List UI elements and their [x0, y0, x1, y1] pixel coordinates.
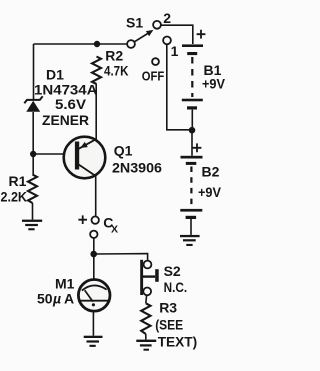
wire B2 bottom lead	[190, 219, 192, 235]
svg-text:M1: M1	[55, 275, 75, 291]
ground below R1	[22, 220, 42, 231]
svg-text:4.7K: 4.7K	[104, 63, 129, 79]
svg-text:2N3906: 2N3906	[112, 159, 162, 175]
wire meter bottom to ground	[92, 311, 94, 336]
node Cx plus terminal circle	[92, 216, 99, 223]
switch S2 actuator cap	[155, 269, 159, 282]
svg-text:TEXT): TEXT)	[158, 333, 198, 349]
ground below B2	[180, 235, 200, 246]
svg-text:D1: D1	[46, 67, 64, 83]
svg-text:2.2K: 2.2K	[1, 188, 28, 204]
svg-text:R1: R1	[9, 173, 27, 189]
svg-text:50: 50	[37, 290, 53, 306]
svg-text:µ: µ	[52, 290, 61, 306]
wire top horizontal rail	[34, 43, 128, 45]
svg-text:B2: B2	[202, 163, 220, 179]
switch S1 arm	[134, 32, 149, 41]
battery B2 dashed cell link	[190, 167, 192, 208]
wire zener to base node	[32, 112, 34, 175]
meter M1 needle	[85, 290, 93, 301]
battery B2	[180, 156, 202, 219]
wire meter node to S2	[94, 254, 148, 261]
svg-text:Q1: Q1	[114, 143, 133, 159]
svg-text:R3: R3	[159, 299, 177, 315]
wire B1 bottom lead	[191, 110, 193, 127]
switch S1 arm arrowhead	[146, 30, 154, 36]
switch S1 OFF terminal circle	[152, 58, 159, 65]
meter M1 chord line	[79, 300, 109, 302]
svg-text:X: X	[111, 223, 118, 235]
svg-text:5.6V: 5.6V	[55, 96, 87, 112]
node base junction dot	[30, 151, 36, 157]
wire terminal1 down and over to battery node	[167, 44, 192, 130]
meter M1 pivot dot	[92, 303, 95, 306]
battery B1 dashed cell link	[191, 57, 193, 97]
transistor Q1 emitter arrowhead	[80, 142, 88, 148]
ground below M1	[84, 336, 103, 347]
node junction top (R2 tap)	[94, 41, 100, 47]
wire B1/B2 junction to B2 top	[191, 133, 193, 156]
resistor R1	[28, 175, 37, 204]
wire Q1 base from left rail	[33, 153, 75, 155]
transistor Q1 emitter lead	[78, 139, 97, 149]
battery B1	[182, 44, 203, 109]
wire S2 bottom to R3	[145, 295, 148, 303]
svg-text:A: A	[64, 290, 74, 306]
meter M1 circle	[78, 280, 110, 312]
svg-text:S2: S2	[164, 263, 181, 279]
svg-text:S1: S1	[126, 15, 143, 31]
wire left rail upper (top to zener)	[33, 44, 35, 99]
transistor Q1 collector lead	[78, 164, 96, 176]
svg-text:(SEE: (SEE	[155, 316, 183, 332]
node B1/B2 junction dot	[189, 127, 196, 134]
svg-text:ZENER: ZENER	[42, 112, 89, 128]
wire t2 to battery B1 top	[161, 25, 193, 44]
transistor Q1 base bar	[75, 142, 79, 170]
switch S2 bar	[140, 260, 143, 295]
resistor R2	[92, 57, 101, 85]
node Cx minus terminal circle	[90, 231, 97, 238]
wire R1 bottom to ground	[32, 203, 34, 220]
switch S2 top contact circle	[144, 261, 152, 269]
switch S1 terminal 1 circle	[163, 37, 171, 45]
switch S2 actuator stem	[143, 275, 155, 277]
switch S2 bottom contact circle	[143, 288, 151, 296]
ground below R3	[136, 340, 156, 351]
plus sign B2	[193, 143, 202, 152]
transistor Q1 circle	[64, 137, 106, 179]
wire Cx bottom terminal to meter node	[93, 238, 95, 279]
wire R3 bottom to ground	[145, 334, 147, 340]
zener diode D1 triangle	[26, 101, 40, 112]
switch S1 terminal 2 circle	[153, 21, 161, 29]
svg-text:R2: R2	[105, 47, 123, 63]
svg-text:+9V: +9V	[198, 184, 222, 200]
node meter junction dot	[90, 251, 97, 258]
plus sign B1	[197, 30, 206, 39]
plus sign Cx	[78, 215, 87, 224]
svg-text:N.C.: N.C.	[164, 279, 188, 295]
svg-text:+9V: +9V	[202, 75, 226, 91]
wire Q1 collector down to Cx terminal	[95, 176, 97, 217]
svg-text:OFF: OFF	[142, 68, 165, 83]
meter M1 scale arc	[82, 285, 107, 290]
wire R2 bottom to Q1 emitter	[95, 84, 97, 140]
svg-text:2: 2	[163, 10, 171, 26]
switch S1 pole circle	[127, 40, 135, 48]
zener diode D1 bar	[24, 96, 42, 103]
resistor R3	[141, 303, 150, 334]
svg-text:1: 1	[171, 43, 179, 59]
